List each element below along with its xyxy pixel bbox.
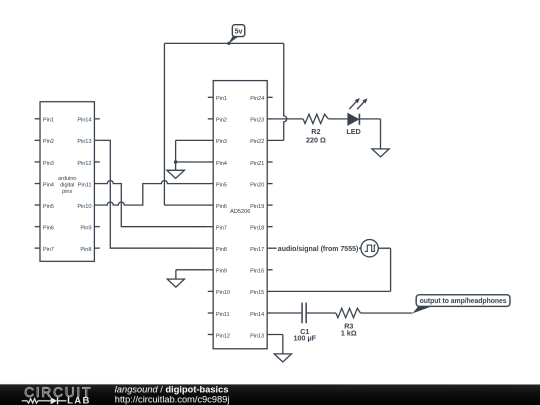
wire U2 pin13 to U1 pin8 <box>100 140 208 248</box>
label R3 value <box>341 321 357 337</box>
pin 18 stub U1 <box>267 226 272 228</box>
svg-text:Pin6: Pin6 <box>43 225 54 231</box>
svg-text:Pin3: Pin3 <box>216 139 227 145</box>
svg-text:Pin14: Pin14 <box>250 312 264 318</box>
pin 1 stub U1 <box>208 96 213 98</box>
label U2 pin names right <box>77 118 91 253</box>
ground below LED <box>372 149 389 157</box>
pin 9 stub U1 <box>208 269 213 271</box>
ground below pin4 junction <box>167 170 185 178</box>
wire R3 to output label <box>360 312 412 314</box>
svg-text:Pin8: Pin8 <box>80 247 91 253</box>
svg-text:http://circuitlab.com/c9c989j: http://circuitlab.com/c9c989j <box>115 394 230 404</box>
pin 2 stub U1 <box>208 118 213 120</box>
wire U2 pin11 to U1 pin7 with hop <box>100 181 208 227</box>
pin 12 stub U1 <box>208 333 213 335</box>
svg-text:arduino: arduino <box>58 176 76 182</box>
svg-text:AD5206: AD5206 <box>230 209 250 215</box>
label R2 value <box>306 127 326 145</box>
pin 21 stub U1 <box>267 161 272 163</box>
node 5v supply label <box>227 25 245 45</box>
svg-text:Pin3: Pin3 <box>43 161 54 167</box>
wire LED to ground <box>359 119 380 149</box>
svg-text:Pin15: Pin15 <box>250 290 264 296</box>
pin 24 stub U1 <box>267 96 272 98</box>
ground below pin9 wire <box>167 279 184 287</box>
pin 13 stub U2 <box>94 139 99 141</box>
pin 3 stub U2 <box>35 161 40 163</box>
svg-text:Pin14: Pin14 <box>77 118 91 124</box>
logo resistor-diode glyph <box>22 399 67 404</box>
label U2 name arduino digital pins <box>58 176 76 195</box>
svg-text:digital: digital <box>60 182 74 188</box>
label C1 value <box>293 327 316 343</box>
svg-text:Pin22: Pin22 <box>250 139 264 145</box>
pin 13 stub U1 <box>267 333 272 335</box>
pin 3 stub U1 <box>208 139 213 141</box>
capacitor C1 <box>302 303 306 324</box>
svg-text:5v: 5v <box>235 28 243 35</box>
svg-text:Pin18: Pin18 <box>250 225 264 231</box>
label U1 pin names left <box>216 96 230 339</box>
wire pin17 U1 to signal source <box>273 247 361 249</box>
svg-text:Pin10: Pin10 <box>216 290 230 296</box>
wire junction to ground <box>175 162 177 170</box>
wire pin23 U1 to R2 with hop <box>273 118 304 120</box>
pin 6 stub U1 <box>208 204 213 206</box>
wire pin13 U1 to ground <box>273 335 283 354</box>
svg-text:Pin11: Pin11 <box>216 312 230 318</box>
pin 10 stub U2 <box>94 204 99 206</box>
svg-text:pins: pins <box>62 189 72 195</box>
wire 5v rail top <box>164 42 283 44</box>
svg-text:Pin6: Pin6 <box>216 204 227 210</box>
wire 5v rail to pin22 U1 <box>273 43 287 140</box>
pin 14 stub U2 <box>94 118 99 120</box>
svg-text:Pin2: Pin2 <box>216 118 227 124</box>
svg-text:audio/signal (from 7555): audio/signal (from 7555) <box>278 246 359 253</box>
svg-text:100 µF: 100 µF <box>293 334 316 343</box>
pin 10 stub U1 <box>208 290 213 292</box>
pin 23 stub U1 <box>267 118 272 120</box>
pin 7 stub U2 <box>35 247 40 249</box>
svg-text:1 kΩ: 1 kΩ <box>341 329 357 338</box>
pin 16 stub U1 <box>267 269 272 271</box>
svg-text:Pin9: Pin9 <box>216 269 227 275</box>
wire C1 to R3 <box>307 312 336 314</box>
svg-text:Pin17: Pin17 <box>250 247 264 253</box>
op-amp U1 AD5206 chip body <box>213 81 267 349</box>
wire 5v rail to pin6 U1 <box>164 43 207 205</box>
svg-text:Pin7: Pin7 <box>216 225 227 231</box>
pin 6 stub U2 <box>35 226 40 228</box>
svg-text:Pin21: Pin21 <box>250 161 264 167</box>
pin 4 stub U1 <box>208 161 213 163</box>
pin 12 stub U2 <box>94 161 99 163</box>
svg-text:langsound / digipot-basics: langsound / digipot-basics <box>115 384 229 394</box>
svg-text:Pin5: Pin5 <box>43 204 54 210</box>
pin 7 stub U1 <box>208 226 213 228</box>
svg-text:Pin9: Pin9 <box>80 225 91 231</box>
svg-text:Pin20: Pin20 <box>250 182 264 188</box>
pin 2 stub U2 <box>35 139 40 141</box>
resistor R3 <box>336 308 361 317</box>
ground below pin13 <box>274 354 291 362</box>
pin 5 stub U1 <box>208 183 213 185</box>
pin 14 stub U1 <box>267 312 272 314</box>
pin 5 stub U2 <box>35 204 40 206</box>
wire U1 pin9 to ground <box>176 270 208 279</box>
wire signal source to pin15 U1 <box>273 248 391 291</box>
svg-text:Pin19: Pin19 <box>250 204 264 210</box>
svg-text:Pin13: Pin13 <box>77 139 91 145</box>
pin 22 stub U1 <box>267 139 272 141</box>
pin 11 stub U1 <box>208 312 213 314</box>
label U2 pin names left <box>43 118 54 253</box>
svg-text:Pin7: Pin7 <box>43 247 54 253</box>
footer bar <box>0 384 540 405</box>
svg-text:Pin4: Pin4 <box>216 161 227 167</box>
svg-text:Pin23: Pin23 <box>250 118 264 124</box>
label U1 pin names right <box>250 96 264 339</box>
pin 1 stub U2 <box>35 118 40 120</box>
signal source V1 circle <box>361 240 378 257</box>
svg-text:Pin5: Pin5 <box>216 182 227 188</box>
svg-text:Pin12: Pin12 <box>77 161 91 167</box>
svg-text:Pin1: Pin1 <box>216 96 227 102</box>
svg-text:Pin2: Pin2 <box>43 139 54 145</box>
svg-text:Pin12: Pin12 <box>216 333 230 339</box>
svg-text:Pin13: Pin13 <box>250 333 264 339</box>
svg-text:Pin16: Pin16 <box>250 269 264 275</box>
svg-text:Pin1: Pin1 <box>43 118 54 124</box>
pin 15 stub U1 <box>267 290 272 292</box>
pin 20 stub U1 <box>267 183 272 185</box>
node audio/signal net label <box>276 243 359 253</box>
svg-text:output to amp/headphones: output to amp/headphones <box>420 298 507 305</box>
svg-text:Pin4: Pin4 <box>43 182 54 188</box>
label U1 name AD5206 <box>230 209 250 215</box>
wire U2 pin10 to U1 pin5 with hops <box>100 181 208 206</box>
pin 4 stub U2 <box>35 183 40 185</box>
pin 11 stub U2 <box>94 183 99 185</box>
LED D1 <box>348 98 368 125</box>
wire R2 to LED <box>328 118 348 120</box>
op-amp U2 arduino digital pins chip body <box>40 102 94 262</box>
resistor R2 <box>303 114 328 123</box>
label LED <box>346 127 360 136</box>
svg-text:LED: LED <box>346 127 360 136</box>
node junction pin3-pin4-ground <box>174 160 177 163</box>
pin 17 stub U1 <box>267 247 272 249</box>
wire pin14 U1 to C1 <box>273 312 302 314</box>
svg-text:220 Ω: 220 Ω <box>306 136 326 145</box>
svg-text:Pin11: Pin11 <box>78 182 92 188</box>
node output to amp/headphones label <box>412 295 510 314</box>
wire pin3 U1 loop to pin4 <box>176 140 208 162</box>
svg-text:Pin10: Pin10 <box>77 204 91 210</box>
svg-text:LAB: LAB <box>67 395 91 405</box>
pin 19 stub U1 <box>267 204 272 206</box>
pin 9 stub U2 <box>94 226 99 228</box>
svg-text:Pin24: Pin24 <box>250 96 264 102</box>
pin 8 stub U2 <box>94 247 99 249</box>
svg-text:Pin8: Pin8 <box>216 247 227 253</box>
pin 8 stub U1 <box>208 247 213 249</box>
